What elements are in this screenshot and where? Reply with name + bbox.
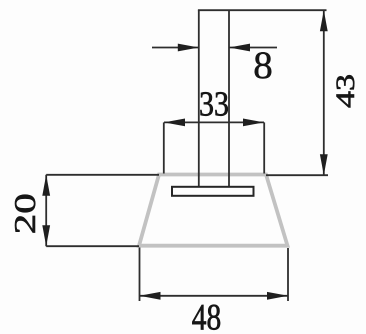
svg-text:43: 43	[331, 74, 360, 108]
dimension 48: right arrow (points right)	[267, 292, 288, 300]
dimension 43: bottom arrow (points down)	[320, 154, 328, 175]
stem top edge / extension to 43 dimension	[198, 9, 327, 11]
stem left edge	[198, 10, 200, 186]
stem right edge	[228, 10, 230, 186]
dimension 43: bottom extension line	[266, 174, 328, 176]
svg-text:48: 48	[192, 297, 222, 334]
dimension 8: left arrow (points right)	[178, 44, 199, 52]
slot rectangle inside cap	[172, 187, 254, 196]
dimension 8: right arrow (points left)	[229, 44, 250, 52]
svg-text:33: 33	[199, 85, 229, 124]
dimension 20: bottom extension line	[46, 245, 139, 247]
dimension 48: right extension line	[287, 248, 289, 301]
dimension 20: bottom arrow (points down)	[42, 225, 50, 246]
cap body trapezoid (gray outline)	[139, 175, 288, 246]
svg-text:20: 20	[7, 193, 42, 234]
dimension 20: dimension line	[45, 175, 47, 246]
dimension 33: right arrow (points right)	[243, 119, 264, 127]
dimension 33: left extension line	[163, 122, 165, 173]
dimension 33: left arrow (points left)	[164, 119, 185, 127]
dimension 20: top extension line	[46, 174, 159, 176]
svg-text:8: 8	[253, 44, 273, 87]
dimension 43: top arrow (points up)	[320, 10, 328, 31]
dimension 33: right extension line	[263, 122, 265, 173]
dimension 20: top arrow (points up)	[42, 175, 50, 196]
dimension 8: right leader line	[229, 47, 277, 49]
dimension 8: left leader line	[152, 47, 199, 49]
dimension 48: left arrow (points left)	[140, 292, 161, 300]
dimension 48: left extension line	[139, 248, 141, 302]
dimension 48: dimension line	[140, 295, 289, 297]
dimension 43: dimension line	[323, 10, 325, 175]
dimension 33: dimension line	[164, 121, 264, 123]
